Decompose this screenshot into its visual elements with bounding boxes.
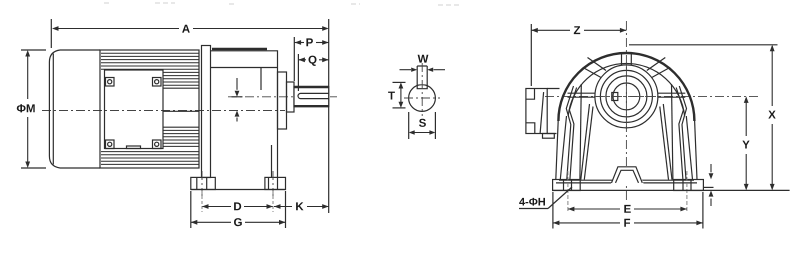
motor cooling fins right upper band [163, 72, 199, 111]
dimension E [568, 205, 687, 213]
gearbox left foot [191, 171, 216, 196]
motor end cap [49, 50, 100, 168]
base bottom extension line [553, 189, 790, 191]
output shaft [294, 86, 329, 107]
gearbox input flange bar [202, 46, 211, 178]
left A-pillar rib [581, 104, 593, 180]
motor body outline [100, 50, 199, 168]
gearbox right leg [271, 145, 273, 178]
dimension P [294, 37, 328, 81]
dimension T [388, 82, 405, 108]
dimension Z [531, 24, 626, 86]
motor centerline [42, 110, 285, 112]
terminal plate screw top-left [106, 78, 115, 87]
front view vertical centerline [625, 21, 627, 203]
gearbox base bottom line [191, 189, 286, 191]
motor cooling fins right lower band [163, 127, 199, 146]
upper-left rib [583, 58, 606, 78]
terminal plate screw top-right [153, 78, 162, 87]
dimension Q [298, 54, 328, 91]
front view right foot [674, 171, 704, 213]
faint scan smudge top left [104, 3, 462, 5]
gearbox right side wall [686, 116, 697, 180]
gearbox dome outer arc [558, 53, 694, 121]
cross-section keyway slot [417, 66, 427, 89]
left horizontal rib [568, 93, 596, 97]
terminal box (front view) [526, 89, 560, 139]
right knee rib [672, 84, 687, 180]
dimension X [629, 45, 778, 191]
dimension PhiM [17, 50, 46, 168]
gearbox housing top cover [212, 48, 267, 50]
terminal plate screw bottom-right [153, 140, 162, 149]
dimension S [409, 112, 436, 139]
right horizontal rib [658, 93, 686, 97]
dimension D [202, 191, 273, 212]
gearbox right foot [265, 171, 286, 196]
bearing retainer circle [600, 70, 652, 122]
gearbox left side wall [556, 116, 567, 180]
bottom center trapezoid bump [611, 166, 644, 184]
motor cooling fins bottom band [101, 152, 199, 165]
oil seal circle [606, 76, 647, 117]
gearbox dome inner arc [568, 63, 684, 116]
gearbox housing right wall [261, 68, 278, 178]
upper-right rib [647, 58, 670, 78]
top vertical rib [622, 52, 632, 66]
front view left foot [553, 171, 581, 213]
front view horizontal centerline [545, 95, 761, 97]
centerline offset dimension [232, 78, 243, 122]
dimension Y [742, 96, 749, 190]
shaft cross-section circle [409, 85, 436, 112]
output bearing boss [287, 82, 295, 112]
dimension A [51, 19, 328, 213]
foot height small dimension [704, 164, 714, 206]
right A-pillar rib [660, 104, 672, 180]
terminal plate screw bottom-left [106, 140, 115, 149]
motor terminal plate [105, 70, 164, 149]
gearbox output face plate [278, 72, 287, 129]
bottom housing edge lines [556, 180, 697, 183]
dimension G [191, 191, 286, 228]
dimension W [400, 55, 446, 72]
gearbox housing upper section [211, 51, 278, 68]
label 4-PhiH with leader [519, 187, 572, 209]
dimension K [274, 202, 329, 210]
shaft bore circle [613, 83, 640, 110]
front view crosshair [594, 63, 659, 130]
bearing housing circle [595, 65, 658, 128]
shaft keyway (side view) [298, 93, 329, 98]
motor cooling fins top band [101, 53, 199, 69]
cross-section crosshair centerlines [404, 63, 440, 116]
output shaft centerline (side view) [228, 96, 337, 98]
left knee rib [566, 84, 581, 180]
bore keyway notch [612, 93, 618, 101]
dimension F [553, 192, 703, 229]
